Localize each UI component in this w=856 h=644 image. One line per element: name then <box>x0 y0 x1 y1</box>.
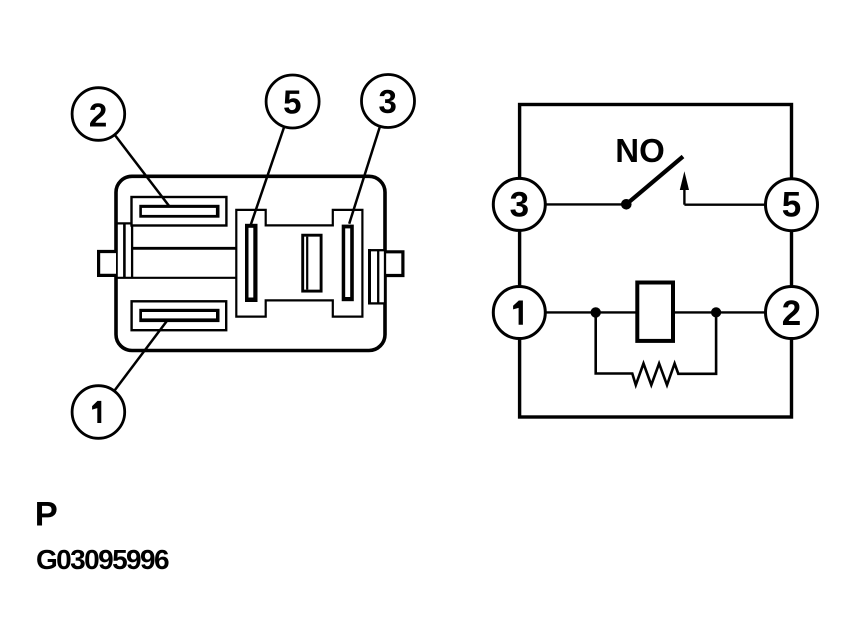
svg-text:2: 2 <box>782 294 801 333</box>
svg-text:P: P <box>35 495 58 533</box>
svg-text:3: 3 <box>510 186 529 225</box>
svg-text:3: 3 <box>379 83 397 120</box>
svg-text:NO: NO <box>615 132 665 169</box>
svg-text:2: 2 <box>89 97 107 134</box>
svg-text:5: 5 <box>283 84 301 121</box>
svg-text:G03095996: G03095996 <box>36 544 169 575</box>
svg-text:5: 5 <box>782 186 801 225</box>
